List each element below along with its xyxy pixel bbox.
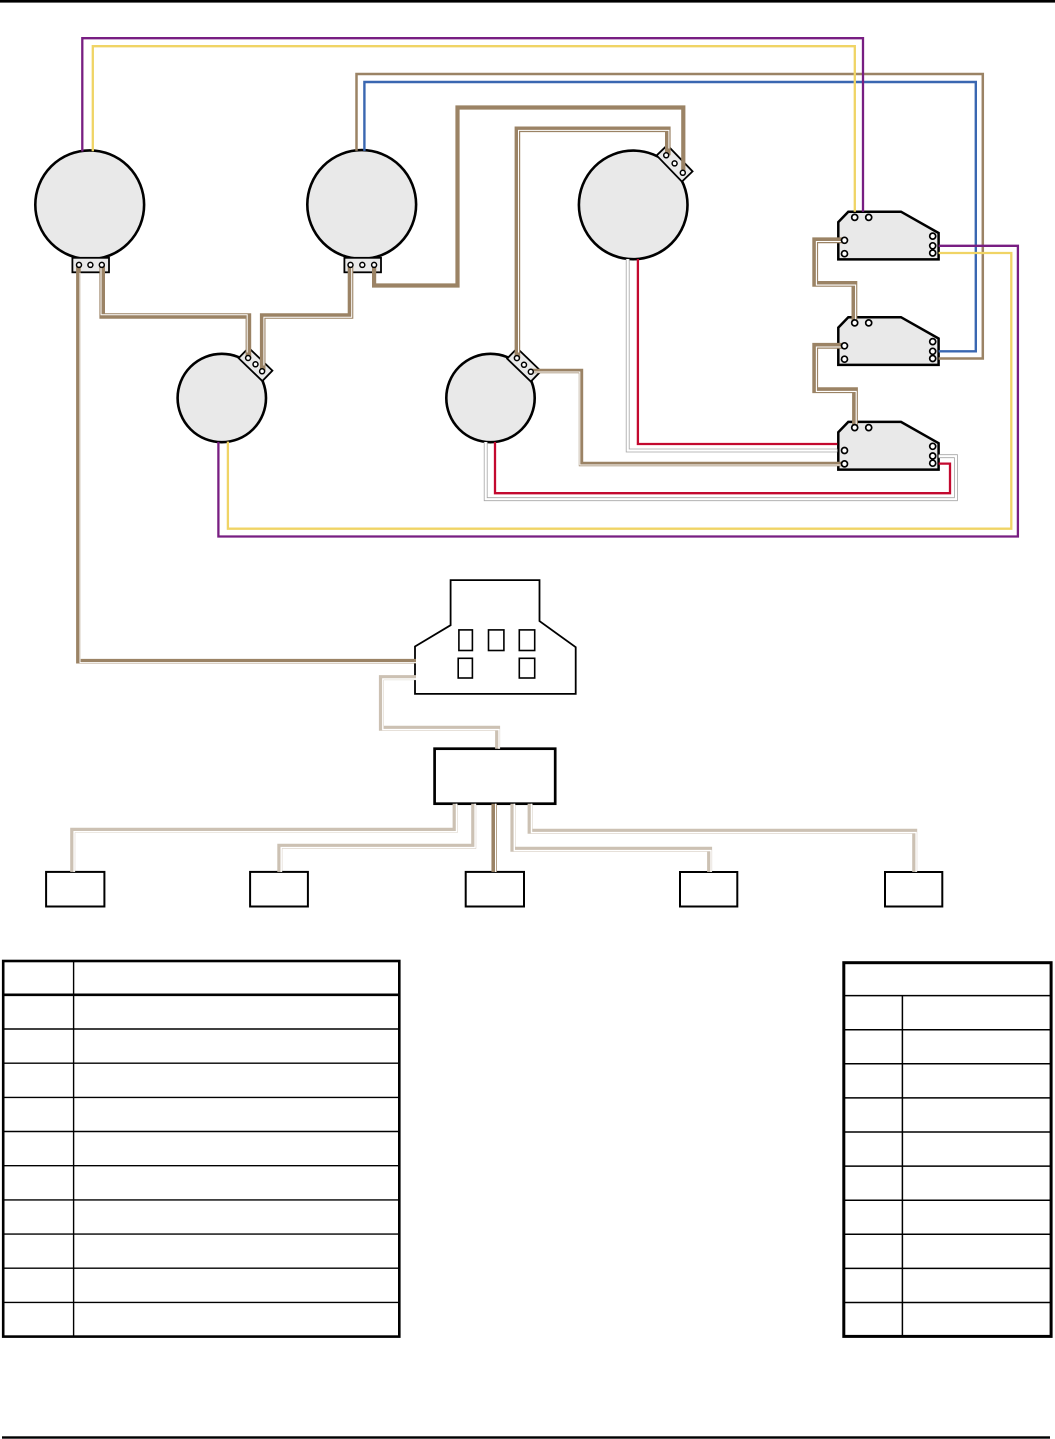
terminal block 3 xyxy=(466,872,524,907)
pins PU1 xyxy=(842,214,936,256)
wire red VR3-bottom to PU3-left xyxy=(638,259,837,444)
wire purple VR1-top to PU1-top xyxy=(82,38,863,212)
terminal block 4 xyxy=(680,872,737,907)
potentiometer VR3 body xyxy=(579,151,688,260)
wire red VR5-bottom to PU3-right xyxy=(495,442,950,493)
potentiometer VR5 body xyxy=(446,354,534,442)
pickup PU2 body xyxy=(838,317,938,365)
right table xyxy=(844,963,1051,1337)
pins PU3 xyxy=(842,425,936,467)
pins VR2 xyxy=(348,262,377,267)
wire shielded PU1-left to PU2-top xyxy=(815,240,854,323)
potentiometer VR2 body xyxy=(307,150,416,259)
terminal block 5 xyxy=(885,872,942,907)
wire pale switch to terminal 4 xyxy=(513,804,710,872)
pickup PU1 body xyxy=(838,212,938,260)
left table xyxy=(3,961,399,1337)
wire pale switch to terminal 5 xyxy=(530,804,915,872)
pins VR4 xyxy=(246,356,265,374)
jack plate hole 1 xyxy=(459,630,473,651)
wire blue VR2-top to PU2 xyxy=(364,82,975,351)
wire shielded PU2-left to PU3-top xyxy=(815,346,855,428)
jack plate hole 3 xyxy=(519,630,534,651)
jack plate hole 2 xyxy=(489,630,504,651)
pickup PU3 body xyxy=(838,422,938,470)
potentiometer VR2 connector xyxy=(344,258,381,273)
wire yellow VR4-bottom to PU1-right xyxy=(228,253,1011,529)
wire shielded switch to terminal 3 xyxy=(491,804,497,872)
potentiometer VR1 connector xyxy=(72,258,109,273)
switch box xyxy=(435,749,556,804)
potentiometer VR1 body xyxy=(35,150,144,259)
potentiometer VR4 connector xyxy=(239,348,273,381)
wire brown VR2-pin3 to VR3-pin3 xyxy=(374,108,683,286)
wire shielded VR1-pin3 to VR4-pin1 xyxy=(102,265,248,358)
terminal block 1 xyxy=(46,872,104,907)
wire yellow VR1-top to PU1-top xyxy=(93,46,855,212)
potentiometer VR3 connector xyxy=(657,145,693,181)
potentiometer VR4 body xyxy=(178,354,266,442)
terminal block 2 xyxy=(250,872,308,907)
wire pale jack plate to switch box xyxy=(381,678,497,749)
wire white VR3-bottom to PU3-left xyxy=(628,259,838,451)
pins VR1 xyxy=(77,262,105,267)
potentiometer VR5 connector xyxy=(507,348,541,381)
pins VR3 xyxy=(664,153,686,176)
wire brown VR2-top to PU2 xyxy=(357,74,983,359)
bottom border bar xyxy=(2,1436,1050,1438)
top border bar xyxy=(0,0,1055,3)
wire shielded VR1-pin1 to jack plate xyxy=(78,265,416,661)
pins VR5 xyxy=(514,356,533,375)
wire pale switch to terminal 1 xyxy=(73,804,455,872)
jack plate hole 5 xyxy=(519,658,534,678)
wire purple VR4-bottom to PU1-right xyxy=(218,246,1018,537)
wire shielded VR5-pin3 to PU3-left xyxy=(531,371,845,464)
jack plate hole 4 xyxy=(458,658,472,678)
wire pale switch to terminal 2 xyxy=(280,804,474,872)
wire shielded VR5-pin1 to VR3-pin1 xyxy=(517,129,667,358)
wire white VR5-bottom to PU3-right xyxy=(486,442,956,499)
output jack plate xyxy=(415,580,576,694)
pins PU2 xyxy=(842,320,936,362)
wire shielded VR2-pin1 to VR4-pin3 xyxy=(263,265,351,371)
